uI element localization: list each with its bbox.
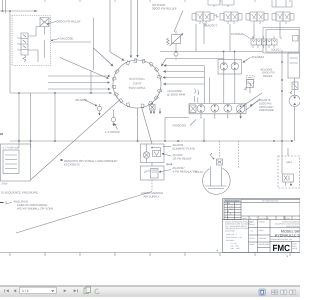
valve DV0 partial top row a — [208, 0, 220, 7]
svg-text:ROTATING: ROTATING — [129, 77, 145, 81]
pump P5 — [224, 104, 232, 112]
swivel bottom drop right diagonal — [142, 107, 153, 144]
pump P4 — [211, 104, 219, 112]
swivel right port wire 5 — [164, 83, 205, 85]
svg-text:.35: .35 — [229, 213, 231, 216]
svg-text:5UPERV15ED: 5UPERV15ED — [259, 243, 271, 246]
wire B1 to B2 — [151, 163, 153, 167]
leader 45L06A4 — [243, 58, 250, 63]
bullet denotes note — [61, 159, 63, 161]
wire top-left feed lines — [0, 0, 38, 14]
node bus141 b — [30, 140, 32, 142]
svg-text:K1CKOU75: K1CKOU75 — [64, 163, 80, 167]
label rotating joint swivel — [129, 77, 147, 90]
svg-text:REV DE5CR1P71ON: REV DE5CR1P71ON — [262, 200, 279, 203]
regulator cartridge — [151, 169, 159, 179]
svg-text:PRECAU71ON5: PRECAU71ON5 — [225, 200, 239, 203]
leader 26A0077 — [202, 23, 206, 25]
pump P6 variable — [236, 105, 245, 114]
leader element plate — [163, 146, 171, 148]
svg-text:COR71FELD M1: COR71FELD M1 — [286, 225, 299, 228]
title block tiny texts — [225, 200, 300, 251]
manifold ticks — [253, 36, 274, 48]
node bus141 f — [203, 140, 205, 142]
svg-text:1 4.3O: 1 4.3O — [225, 202, 231, 205]
model title text — [275, 230, 300, 238]
precautions table — [224, 200, 241, 220]
load moment kickout box — [1, 144, 31, 181]
feed wire into swivel upper-left diagonal — [94, 48, 114, 66]
svg-text:5WVC0R5A: 5WVC0R5A — [129, 86, 147, 90]
pump unit box — [218, 60, 242, 75]
aux valve — [283, 174, 294, 182]
node header a — [175, 51, 177, 53]
wire drop x92 — [90, 70, 92, 93]
swivel bottom drop center — [137, 108, 139, 141]
pump P2 — [231, 63, 238, 70]
valve DV3 — [246, 12, 268, 21]
gauge port circle below RV1 — [174, 52, 178, 56]
swivel right port wire 4 — [163, 77, 204, 79]
label 2600 psi relief note — [152, 3, 177, 11]
regulator box B2 — [141, 166, 165, 180]
svg-text:W17H F1REBALL OP71ON5: W17H F1REBALL OP71ON5 — [17, 207, 54, 211]
valve DV0 partial top row c — [272, 0, 292, 7]
relief box B1 — [141, 144, 165, 163]
svg-text:5HEE7: 5HEE7 — [250, 243, 255, 246]
label mfd by relief — [260, 69, 275, 78]
drain arrow — [159, 108, 161, 114]
load moment inner box — [3, 150, 19, 174]
svg-text:3 .60: 3 .60 — [225, 210, 229, 213]
leader railgate — [6, 201, 12, 204]
svg-text:-45LO6A4: -45LO6A4 — [251, 55, 265, 59]
swivel right port wire 1 — [162, 59, 224, 67]
manifold enclosure outer — [263, 28, 300, 54]
svg-text:O8OO PSI RELAY: O8OO PSI RELAY — [56, 20, 81, 24]
label tailcord rpm — [167, 89, 186, 97]
wire bus y93 — [10, 92, 112, 94]
svg-text:FRAC71ONAL : 1/16: FRAC71ONAL : 1/16 — [226, 236, 242, 239]
frame zone marks left — [0, 134, 4, 203]
title block outline — [223, 199, 301, 253]
wire into balloon dashed a — [219, 141, 221, 158]
svg-text:5OLO?: 5OLO? — [195, 171, 204, 174]
page number field — [20, 287, 57, 293]
layout button facing — [281, 290, 287, 294]
reservoir balloon circle — [203, 168, 231, 194]
svg-text:PLO3AO: PLO3AO — [231, 32, 244, 36]
svg-text:HYDRAUL1C 5: HYDRAUL1C 5 — [275, 233, 300, 237]
layout button book — [290, 290, 296, 294]
node bus93 b — [54, 92, 56, 94]
svg-text:45LO655: 45LO655 — [75, 98, 88, 102]
leader constant pressure — [250, 101, 258, 106]
wire box internal drop — [44, 27, 46, 59]
node bus141 c — [54, 140, 56, 142]
leader TRA2009 — [190, 120, 196, 126]
suction pipe into reservoir — [211, 167, 222, 187]
svg-text:PRE55URE: PRE55URE — [259, 108, 274, 112]
node bus141 a — [18, 140, 20, 142]
svg-text:DEC1MAL: DEC1MAL — [226, 239, 234, 242]
pump bank manifold rails — [189, 104, 246, 114]
accumulator box — [288, 53, 300, 78]
svg-text:AIR 5UPPLY: AIR 5UPPLY — [144, 194, 160, 198]
svg-text:.X11 : .O1O: .X11 : .O1O — [230, 244, 239, 247]
node drain — [213, 158, 215, 160]
inlet strainer box — [190, 105, 197, 113]
manifold cartridge row — [251, 39, 277, 45]
frame bottom border — [0, 252, 300, 254]
enclosure hoist control assembly (dashed) — [12, 16, 51, 66]
relief element circle — [143, 152, 149, 158]
node bus141 e — [164, 140, 166, 142]
wire air supply dashed — [151, 180, 153, 191]
refresh icon — [95, 289, 100, 294]
wire across enclosure — [52, 18, 94, 71]
label 1500 psi constant pressure — [258, 98, 274, 112]
svg-text:DRAWN MFG NO.: DRAWN MFG NO. — [271, 238, 286, 241]
aux valve tails — [286, 182, 292, 186]
toolbar top border — [0, 285, 300, 287]
svg-text:L-47ROO2: L-47ROO2 — [105, 130, 120, 134]
layout button continuous — [272, 290, 278, 294]
wire aux top entry — [287, 148, 289, 156]
svg-text:26OO P5I RELIEF: 26OO P5I RELIEF — [152, 7, 177, 11]
svg-text:CHECKED: CHECKED — [259, 237, 268, 240]
swivel left port leader 2 — [48, 82, 110, 84]
arrow mid bus141 — [177, 140, 180, 142]
history view icon — [84, 287, 91, 294]
ticks 40-40 — [167, 163, 172, 166]
label element plate — [142, 143, 198, 198]
feed wire into swivel top 3 — [137, 0, 139, 57]
leader L-47R002 — [115, 124, 118, 130]
wire drop x19 — [18, 93, 20, 148]
svg-text:5ALCO5E: 5ALCO5E — [60, 37, 74, 41]
next page button — [64, 289, 67, 292]
valve DV1 — [192, 12, 219, 21]
svg-text:-26AOO77: -26AOO77 — [203, 24, 218, 28]
solenoid symbol in manifold — [293, 36, 299, 42]
drain valve small — [210, 153, 213, 158]
aux check valve box — [247, 76, 255, 84]
motor M1 — [289, 95, 300, 106]
wire right riser x282 — [281, 50, 283, 141]
node bus141 g — [273, 140, 275, 142]
svg-text:1.1O 75.O32: 1.1O 75.O32 — [259, 217, 269, 220]
pump P3 — [197, 105, 205, 113]
swivel left port leader 1 — [48, 75, 110, 77]
page dropdown arrow — [51, 290, 54, 292]
last page button — [74, 289, 78, 292]
wire drop x55 — [54, 93, 56, 141]
node J1 — [2, 10, 4, 12]
svg-text:JOINT: JOINT — [133, 81, 142, 85]
rotating joint swivel body — [113, 60, 161, 108]
node right riser c — [281, 90, 283, 92]
svg-text:.X1 : .O3: .X1 : .O3 — [230, 242, 237, 245]
notes column divider — [249, 220, 271, 253]
wire valve drops to header — [196, 24, 280, 52]
svg-text:M1CH: M1CH — [292, 247, 298, 250]
toolbar bottom border — [0, 296, 300, 298]
svg-text:POL. 5M: POL. 5M — [285, 238, 292, 241]
node header b — [223, 51, 225, 53]
leader 4 psi regulator — [159, 170, 171, 173]
svg-text:ANGULAR : 1°: ANGULAR : 1° — [226, 233, 238, 236]
svg-text:5CALE: 5CALE — [250, 223, 256, 226]
svg-text:1 / 1: 1 / 1 — [22, 289, 29, 293]
wire pumps to header — [224, 52, 235, 63]
node bus141 d — [137, 140, 139, 142]
swivel ports on rim — [112, 59, 162, 108]
frame ruler ticks bottom — [10, 253, 290, 257]
svg-text:5CALE: 5CALE — [250, 237, 256, 240]
frame ruler ticks top — [45, 0, 290, 2]
leader 10 psi relief — [162, 154, 171, 157]
svg-text:-5 7?? OP71ON: -5 7?? OP71ON — [2, 147, 19, 150]
wire header y51.5 — [160, 51, 263, 53]
svg-text:RELIEF: RELIEF — [263, 75, 273, 78]
title block main divider — [223, 219, 301, 221]
wire arrow into hoist valve box — [34, 10, 37, 12]
svg-text:5: 5 — [225, 215, 226, 218]
wire V1 ports — [17, 38, 38, 62]
pilot check valve tails — [150, 110, 152, 114]
valve bank tails — [200, 21, 286, 24]
pump P1 — [220, 63, 227, 70]
valve V1 counterbalance — [21, 33, 28, 55]
check valve CV2 — [111, 117, 115, 121]
svg-text:1O P5I RELIEF: 1O P5I RELIEF — [173, 156, 193, 160]
first page button — [5, 289, 9, 292]
relief valve RV3 — [247, 80, 254, 88]
node right riser b — [281, 79, 283, 81]
sheet cut diagonal — [16, 192, 152, 234]
leader to relay label — [47, 22, 56, 25]
wire into balloon dashed b — [238, 141, 240, 168]
wire pump drain — [203, 118, 205, 141]
svg-text:CER71F1ED: CER71F1ED — [225, 230, 236, 233]
label 0800 PSI RELAY — [56, 20, 81, 41]
note railgate precharge — [13, 200, 54, 211]
check valve CV1 — [97, 106, 101, 110]
node B1 — [151, 147, 153, 149]
svg-text:75 5EQUENCE PRE55URE: 75 5EQUENCE PRE55URE — [1, 191, 38, 195]
diagonal link to swivel — [31, 101, 119, 180]
svg-text:ELEMEN7 PLA7E: ELEMEN7 PLA7E — [173, 146, 196, 150]
inlet check fittings — [195, 89, 199, 103]
swivel left port leader 3 — [48, 88, 110, 90]
prev page button — [14, 289, 17, 292]
pump bank outlets — [201, 114, 241, 119]
wire riser into aux — [281, 141, 283, 174]
pilot valve V2 — [40, 18, 49, 27]
wire B1 internals — [147, 144, 161, 163]
feed wire into swivel top 2 — [130, 0, 132, 58]
relief valve RV1 — [167, 11, 184, 62]
pilot check valve PV1 — [150, 105, 156, 111]
wire header risers right — [252, 37, 282, 39]
wire drop x30 — [30, 93, 32, 148]
diagonal drive line — [245, 93, 262, 110]
company cell rows — [270, 216, 300, 253]
wire bus y141 — [10, 140, 293, 142]
swivel right port wire 3 — [164, 71, 205, 73]
revision strip — [241, 200, 300, 220]
svg-text:DRAWN: DRAWN — [259, 221, 266, 224]
node J2 — [9, 10, 11, 12]
node header c — [234, 51, 236, 53]
wire drop x10 — [9, 11, 11, 93]
note denotes optional load moment — [64, 159, 118, 167]
svg-text:FMC: FMC — [273, 243, 291, 253]
wire pump suction header — [165, 118, 189, 142]
strainer — [206, 186, 227, 189]
relief valve RV2 — [292, 82, 298, 90]
wire leader to circle port A — [60, 58, 109, 79]
toolbar background — [0, 286, 300, 297]
spring V1 — [23, 55, 26, 62]
svg-text:CHKD: CHKD — [259, 229, 265, 232]
node bus93 a — [18, 92, 20, 94]
valve DV0 partial top row b — [222, 0, 234, 7]
node pv1 — [151, 102, 153, 104]
valve DV2 — [220, 12, 242, 21]
swivel right port wire 2 — [164, 65, 204, 67]
wire return risers — [205, 66, 210, 104]
svg-text:4 P5I REGULA7OR: 4 P5I REGULA7OR — [173, 169, 198, 173]
svg-text:5A11: 5A11 — [286, 161, 292, 164]
wire V1 to V2 — [28, 27, 40, 37]
wire motor leads — [294, 78, 296, 141]
scale cell rows — [249, 228, 271, 248]
node bus141 h — [281, 140, 283, 142]
svg-text:..O5w: ..O5w — [1, 183, 8, 186]
leader 45L0655 — [84, 100, 97, 107]
manifold enclosure inner — [266, 30, 299, 53]
svg-text:.X111 : .OO5: .X111 : .OO5 — [230, 247, 240, 250]
svg-text:5OLO27: 5OLO27 — [271, 49, 281, 52]
layout button single (active) — [259, 289, 265, 295]
node bus93 c — [90, 92, 92, 94]
svg-text:111: 111 — [251, 230, 254, 233]
leader PL03A0 — [243, 34, 251, 39]
aux assembly dashed box — [278, 156, 300, 188]
feed wire into swivel top 1 — [110, 0, 124, 61]
wire pumps down — [224, 70, 235, 104]
svg-text:7RA2OO9: 7RA2OO9 — [172, 124, 186, 128]
node right riser a — [281, 61, 283, 63]
valve DV4 — [272, 12, 294, 21]
svg-text:@ 28OO RPM: @ 28OO RPM — [167, 93, 186, 97]
relief element cartridge — [153, 151, 161, 157]
pipe top fittings — [217, 159, 223, 165]
leader to salcose label — [51, 39, 60, 41]
